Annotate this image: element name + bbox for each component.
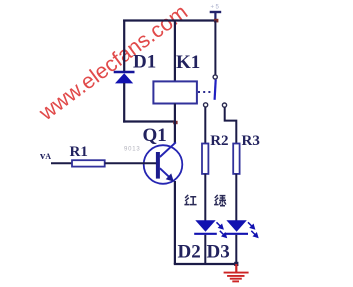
resistor R3: [233, 144, 239, 174]
svg-text:Q1: Q1: [143, 125, 167, 146]
wire input to R1: [51, 162, 72, 164]
transistor Q1: [144, 142, 183, 183]
wire R3 to D3: [235, 174, 237, 221]
svg-text:D3: D3: [207, 242, 230, 263]
wire D2 to bottom rail: [204, 235, 206, 264]
wire left contact to R2: [204, 107, 206, 144]
wire left vertical upper (to D1 cathode): [123, 20, 125, 73]
svg-text:R1: R1: [70, 144, 88, 160]
LED D3: [226, 220, 258, 237]
switch contact left terminal: [204, 103, 208, 107]
node: junction top power: [214, 19, 218, 23]
wire switch pole drop: [214, 21, 216, 75]
switch arm: [215, 80, 216, 100]
wire D3 to bottom rail: [235, 235, 237, 264]
relay coil K1: [153, 81, 197, 103]
svg-text:R3: R3: [242, 133, 260, 149]
wire left vertical lower (D1 anode down): [123, 83, 125, 123]
switch K1-1 pole terminal: [213, 75, 217, 79]
wire dotted mechanical link: [198, 91, 212, 93]
wire R2 to D2: [204, 174, 206, 221]
power +5 rail: [210, 5, 222, 22]
wire R1 to base: [105, 162, 157, 164]
svg-text:+5: +5: [211, 5, 221, 11]
svg-text:D1: D1: [133, 52, 156, 73]
LED D2: [194, 220, 226, 237]
node: junction collector: [173, 121, 177, 124]
wire top horizontal: [123, 19, 216, 21]
svg-text:9013: 9013: [124, 146, 141, 152]
resistor R2: [202, 144, 208, 174]
node: junction bottom: [234, 262, 238, 266]
svg-text:www.elecfans.com: www.elecfans.com: [34, 0, 192, 126]
svg-text:D2: D2: [178, 242, 201, 263]
wire right contact jog to R3: [225, 107, 237, 143]
wire relay vertical upper: [174, 20, 176, 83]
switch contact right terminal: [222, 103, 226, 107]
svg-text:R2: R2: [210, 133, 228, 149]
label red (hong): [184, 195, 196, 205]
svg-text:vA: vA: [40, 151, 51, 162]
wire relay vertical lower (to collector): [174, 104, 176, 144]
label green (lv): [214, 195, 226, 206]
diode D1: [114, 72, 135, 83]
wire bottom rail: [174, 263, 238, 265]
svg-text:K1: K1: [176, 52, 200, 73]
ground: [224, 264, 249, 281]
wire emitter drop: [174, 181, 176, 264]
resistor R1: [72, 160, 105, 166]
wire horizontal D1 to relay branch: [123, 120, 176, 122]
